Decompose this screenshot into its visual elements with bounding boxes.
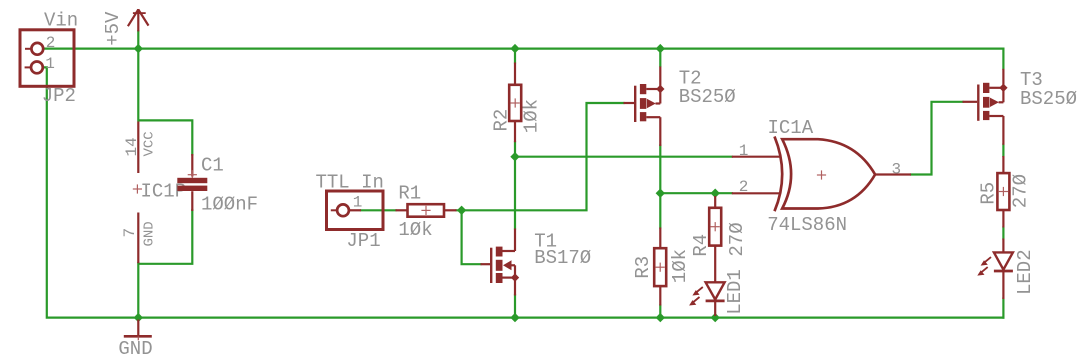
label R5 rotated bbox=[977, 182, 999, 205]
svg-text:2: 2 bbox=[46, 34, 56, 52]
svg-text:R3: R3 bbox=[632, 256, 654, 279]
pin number JP2-1 bbox=[45, 55, 55, 73]
svg-text:IC1P: IC1P bbox=[141, 180, 187, 202]
IC1P origin cross bbox=[133, 184, 142, 193]
transistor T3 bbox=[963, 69, 1008, 145]
resistor R1 bbox=[396, 204, 457, 217]
wire T2 drain to XOR input 2 bbox=[660, 146, 732, 194]
wire R5 to LED2 gap bbox=[1002, 228, 1004, 239]
svg-text:Vin: Vin bbox=[44, 10, 78, 32]
label T1 bbox=[534, 230, 557, 252]
svg-text:BS25Ø: BS25Ø bbox=[1020, 88, 1077, 110]
label LED1 rotated bbox=[724, 269, 746, 315]
junction bottom rail at GND bbox=[134, 313, 143, 322]
svg-text:VCC: VCC bbox=[141, 131, 157, 156]
ground symbol bbox=[124, 320, 152, 341]
label R2 rotated bbox=[491, 109, 513, 132]
resistor R5 bbox=[997, 156, 1009, 228]
junction bottom rail at LED1 bbox=[711, 313, 720, 322]
junction top rail at R2 bbox=[510, 44, 519, 53]
label R1 bbox=[398, 183, 421, 205]
pin number 14 bbox=[123, 137, 141, 156]
svg-text:GND: GND bbox=[118, 338, 152, 360]
svg-text:R1: R1 bbox=[398, 183, 421, 205]
svg-text:LED1: LED1 bbox=[724, 269, 746, 315]
svg-text:IC1A: IC1A bbox=[768, 117, 814, 139]
svg-text:JP1: JP1 bbox=[346, 230, 380, 252]
svg-text:R4: R4 bbox=[690, 234, 712, 257]
wire C1 bottom to GND net bbox=[138, 210, 192, 318]
svg-text:1Øk: 1Øk bbox=[669, 249, 691, 283]
value 10k rotated bbox=[521, 99, 543, 133]
svg-text:GND: GND bbox=[141, 221, 157, 246]
label R3 rotated bbox=[632, 256, 654, 279]
svg-text:1Øk: 1Øk bbox=[521, 99, 543, 133]
wire T1 gate branch bbox=[462, 210, 481, 264]
junction R4 top bbox=[711, 189, 720, 198]
svg-text:1: 1 bbox=[353, 194, 363, 212]
svg-text:JP2: JP2 bbox=[42, 85, 76, 107]
wire JP1 to R1 bbox=[361, 209, 396, 211]
wire R2 bottom to XOR input 1 bbox=[515, 142, 732, 157]
wire GND bottom rail bbox=[45, 67, 1004, 317]
value 270 rotated bbox=[726, 222, 748, 256]
svg-text:BS25Ø: BS25Ø bbox=[679, 86, 736, 108]
IC1P VCC pin bbox=[137, 122, 139, 174]
value 74LS86N bbox=[767, 214, 847, 236]
junction bottom rail at T1 bbox=[510, 313, 519, 322]
junction T2 drain bbox=[656, 189, 665, 198]
op-gate IC1A XOR bbox=[732, 137, 911, 212]
wire XOR output to T3 gate bbox=[911, 102, 963, 175]
pin number JP2-2 bbox=[46, 34, 56, 52]
svg-text:+5V: +5V bbox=[102, 11, 124, 46]
svg-text:1: 1 bbox=[45, 55, 55, 73]
pin number JP1-1 bbox=[353, 194, 363, 212]
junction R2 bottom bbox=[510, 152, 519, 161]
value 270 rotated bbox=[1009, 174, 1031, 208]
value 100nF bbox=[201, 194, 258, 216]
svg-text:2: 2 bbox=[739, 178, 749, 196]
svg-text:1: 1 bbox=[739, 142, 749, 160]
junction top rail at +5V bbox=[134, 44, 143, 53]
value 10k rotated bbox=[669, 249, 691, 283]
label LED2 rotated bbox=[1014, 249, 1036, 295]
label T2 bbox=[679, 68, 702, 90]
svg-text:27Ø: 27Ø bbox=[1009, 174, 1031, 208]
wire T2 source stub bbox=[659, 49, 661, 66]
wire T1 source to bottom rail bbox=[514, 295, 516, 318]
svg-text:1Øk: 1Øk bbox=[398, 219, 432, 241]
pin name GND bbox=[141, 221, 157, 246]
wire R1 to junction and T2 gate net bbox=[457, 103, 624, 210]
svg-text:C1: C1 bbox=[201, 155, 224, 177]
resistor R4 bbox=[709, 196, 721, 282]
wire +5V top rail bbox=[45, 49, 1003, 69]
LED1 bbox=[689, 282, 725, 316]
transistor T1 bbox=[481, 229, 520, 296]
value BS250 bbox=[679, 86, 736, 108]
label IC1A bbox=[768, 117, 814, 139]
label Vin bbox=[44, 10, 78, 32]
svg-text:BS17Ø: BS17Ø bbox=[534, 247, 591, 269]
LED2 bbox=[977, 239, 1013, 300]
svg-text:74LS86N: 74LS86N bbox=[767, 214, 847, 236]
label IC1P bbox=[141, 180, 187, 202]
label +5V bbox=[102, 11, 124, 46]
value BS170 bbox=[534, 247, 591, 269]
label R4 rotated bbox=[690, 234, 712, 257]
svg-text:TTL In: TTL In bbox=[316, 172, 384, 194]
junction bottom rail at R3 bbox=[656, 313, 665, 322]
resistor R2 bbox=[509, 63, 521, 143]
junction top rail at T2 bbox=[656, 44, 665, 53]
connector JP2 bbox=[20, 30, 74, 87]
svg-text:14: 14 bbox=[123, 137, 141, 156]
transistor T2 bbox=[624, 67, 665, 147]
pin number 3 bbox=[892, 161, 902, 179]
wire +5V column down to IC1P/C1 bbox=[138, 31, 192, 154]
wire R2 junction down to T1 drain bbox=[514, 157, 516, 229]
svg-text:1ØØnF: 1ØØnF bbox=[201, 194, 258, 216]
IC1P GND pin bbox=[137, 213, 139, 264]
label TTL In bbox=[316, 172, 384, 194]
svg-text:R5: R5 bbox=[977, 182, 999, 205]
value BS250 bbox=[1020, 88, 1077, 110]
label JP1 bbox=[346, 230, 380, 252]
wire R2 top stub bbox=[514, 49, 516, 63]
resistor R3 bbox=[654, 228, 666, 306]
svg-text:LED2: LED2 bbox=[1014, 249, 1036, 295]
wire T3 drain gap bbox=[1002, 145, 1004, 157]
pin name VCC bbox=[141, 131, 157, 156]
pin number 7 bbox=[121, 228, 139, 238]
label C1 bbox=[201, 155, 224, 177]
connector JP1 bbox=[327, 191, 384, 230]
svg-text:27Ø: 27Ø bbox=[726, 222, 748, 256]
junction R1 right bbox=[457, 206, 466, 215]
label GND bbox=[118, 338, 152, 360]
svg-text:R2: R2 bbox=[491, 109, 513, 132]
label JP2 bbox=[42, 85, 76, 107]
wire R3 bottom stub bbox=[659, 306, 661, 318]
svg-text:3: 3 bbox=[892, 161, 902, 179]
pin number 1 bbox=[739, 142, 749, 160]
+5V supply symbol bbox=[128, 9, 149, 31]
value 10k bbox=[398, 219, 432, 241]
wire LED2 to bottom rail bbox=[1002, 299, 1004, 318]
svg-text:7: 7 bbox=[121, 228, 139, 238]
wire junction to R3 bbox=[659, 193, 661, 227]
pin number 2 bbox=[739, 178, 749, 196]
capacitor C1 bbox=[177, 154, 207, 211]
label T3 bbox=[1020, 69, 1043, 91]
